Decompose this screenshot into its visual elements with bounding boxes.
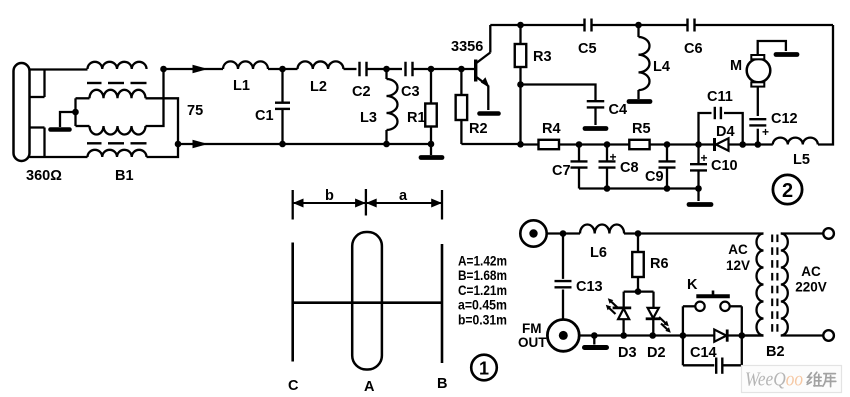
svg-text:R2: R2 [469, 121, 488, 137]
wire w2 right to bottom node [146, 98, 179, 144]
ground (L4) [629, 99, 650, 104]
wire secondary bottom terminal [781, 334, 824, 336]
node B1 center tap [72, 109, 79, 116]
label R2 [469, 121, 488, 137]
svg-text:C6: C6 [684, 41, 703, 57]
wire R4 to R5 [559, 143, 629, 145]
svg-text:C4: C4 [609, 102, 628, 118]
label C14 [690, 345, 717, 361]
dimension line a/b [293, 189, 442, 220]
wire L3 to C3 [387, 68, 403, 70]
label 3356 [451, 39, 483, 55]
capacitor C9 [659, 145, 676, 189]
svg-text:C13: C13 [576, 279, 603, 295]
label R4 [542, 121, 561, 137]
svg-text:R5: R5 [632, 121, 651, 137]
resistor R1 [425, 69, 437, 144]
svg-text:D4: D4 [716, 124, 735, 140]
inductor L5 [773, 138, 818, 145]
label R6 [650, 256, 669, 272]
wire K box bottom edge [683, 364, 742, 366]
capacitor C6 [688, 19, 695, 32]
label FM OUT [518, 321, 547, 350]
label D2 [647, 345, 666, 361]
svg-text:OUT: OUT [518, 335, 547, 350]
svg-text:B: B [437, 376, 447, 392]
watermark WeeQoo [742, 366, 842, 393]
node C8 bottom [604, 185, 611, 192]
svg-text:L3: L3 [360, 110, 377, 126]
svg-text:FM: FM [522, 321, 542, 336]
node D4 cathode-side [739, 141, 746, 148]
connector FM OUT [547, 320, 579, 352]
inductor L3 [387, 69, 398, 144]
B1 left vertical wire [74, 98, 76, 126]
svg-text:L2: L2 [310, 79, 327, 95]
node L4 top [635, 22, 642, 29]
B1 core dashes top [87, 82, 147, 84]
label C3 [401, 84, 420, 100]
ground (B1 center tap) [51, 127, 70, 132]
terminal AC bottom [823, 330, 834, 341]
capacitor C14 [716, 358, 722, 374]
terminal AC top [823, 228, 834, 239]
label D3 [618, 345, 637, 361]
wire R1 to ground [430, 144, 432, 155]
label 75 [187, 103, 203, 119]
wire w4 right to bottom node [147, 144, 179, 157]
svg-text:1: 1 [479, 359, 489, 379]
label B2 [766, 344, 785, 360]
svg-text:B1: B1 [115, 168, 134, 184]
label R1 [407, 110, 426, 126]
capacitor C4 [587, 101, 605, 125]
svg-text:220V: 220V [795, 280, 827, 295]
wire C2 to L3 node [367, 68, 387, 70]
svg-text:B2: B2 [766, 344, 785, 360]
capacitor C3 [406, 62, 413, 77]
label B1 [115, 168, 134, 184]
resistor R3 [515, 25, 527, 144]
label C12 [771, 111, 798, 127]
transformer B2 primary [742, 234, 764, 336]
ground (motor) [776, 52, 797, 57]
balun B1 winding 4 (bottom) [88, 150, 147, 157]
wire L1 to C1 node [268, 68, 298, 70]
capacitor C8 electrolytic [599, 145, 617, 189]
node C9 bottom [664, 185, 671, 192]
node L3 top [383, 66, 390, 73]
circle label 1 [471, 355, 497, 381]
capacitor C10 electrolytic [690, 145, 708, 202]
label L4 [653, 59, 670, 75]
resistor R6 [632, 234, 644, 292]
B1 core dashes bottom [87, 142, 147, 144]
wire R3 to C4 [521, 85, 596, 101]
boom line [293, 301, 442, 304]
svg-text:C7: C7 [552, 163, 571, 179]
svg-text:L4: L4 [653, 59, 670, 75]
svg-text:A: A [364, 379, 375, 395]
wire sub-bottom rail [579, 187, 699, 189]
label L5 [793, 152, 810, 168]
wire top output [164, 68, 224, 70]
label R3 [533, 49, 552, 65]
wire K box left edge [682, 306, 684, 365]
LED D2 [646, 308, 671, 336]
antenna folded dipole 360 ohm [14, 63, 88, 161]
label L2 [310, 79, 327, 95]
capacitor C2 [360, 62, 367, 77]
svg-text:C=1.21m: C=1.21m [458, 282, 507, 298]
svg-text:C3: C3 [401, 84, 420, 100]
wire top rail right corner [818, 25, 833, 145]
svg-text:R1: R1 [407, 110, 426, 126]
diode D5 (series) [714, 330, 727, 342]
label M [730, 58, 742, 74]
svg-text:+: + [762, 125, 769, 139]
inductor L4 [639, 25, 650, 99]
resistor R4 [539, 140, 560, 149]
svg-text:75: 75 [187, 103, 203, 119]
wire LED top bar [624, 292, 654, 309]
label L6 [590, 245, 607, 261]
ground (C4) [585, 126, 606, 131]
node K box right [739, 332, 746, 339]
label A [364, 379, 375, 395]
wire w3 right to top node [146, 69, 164, 126]
label a (dimension) [399, 188, 408, 204]
wire R5 to D4 [650, 143, 715, 145]
capacitor C7 [571, 145, 588, 189]
node C10 bottom [695, 185, 702, 192]
ground (C10) [689, 202, 711, 207]
node C7 top [576, 141, 583, 148]
label AC 220V [795, 264, 827, 295]
node R3 top [517, 22, 524, 29]
svg-text:+: + [701, 151, 708, 165]
label C7 [552, 163, 571, 179]
label L3 [360, 110, 377, 126]
svg-text:a: a [399, 188, 408, 204]
arrow top output [193, 65, 209, 73]
antenna element B (director) [441, 244, 444, 363]
wire FM OUT to rail [579, 334, 763, 336]
capacitor C12 electrolytic [749, 87, 769, 145]
node B1 bottom output [175, 141, 182, 148]
balun B1 winding 1 (top) [88, 62, 147, 69]
svg-text:R4: R4 [542, 121, 561, 137]
node K box left [680, 332, 687, 339]
inductor L1 [223, 61, 268, 69]
wire to ground stub [593, 336, 595, 345]
svg-text:L1: L1 [233, 78, 250, 94]
svg-text:C12: C12 [771, 111, 798, 127]
wire L2 to C2 [344, 68, 357, 70]
node LED top [635, 288, 642, 295]
svg-text:A=1.42m: A=1.42m [458, 253, 507, 269]
label K [687, 277, 698, 293]
node B1 top output [160, 66, 167, 73]
switch K [683, 291, 742, 311]
resistor R2 [456, 69, 468, 144]
label C4 [609, 102, 628, 118]
label B [437, 376, 447, 392]
svg-text:12V: 12V [726, 258, 750, 273]
node C9 top [664, 141, 671, 148]
label L1 [233, 78, 250, 94]
svg-text:b=0.31m: b=0.31m [458, 311, 507, 327]
capacitor C1 [275, 69, 290, 144]
ground (FM OUT rail) [585, 345, 607, 350]
wire to transistor base [431, 68, 474, 70]
svg-text:AC: AC [728, 242, 748, 257]
label C2 [352, 84, 371, 100]
node L3 bottom [383, 141, 390, 148]
dimension text block [458, 253, 507, 328]
capacitor C5 [585, 19, 592, 32]
node R2 top [458, 66, 465, 73]
ground (R1) [421, 155, 442, 160]
inductor L2 [298, 61, 344, 69]
wire C11 right [724, 113, 743, 145]
svg-text:3356: 3356 [451, 39, 483, 55]
node mid rail R3 [517, 141, 524, 148]
label C11 [707, 89, 733, 105]
label C8 [620, 160, 639, 176]
svg-text:b: b [325, 188, 334, 204]
svg-text:+: + [610, 150, 617, 164]
wire motor to ground [758, 41, 786, 55]
wire top rail [490, 24, 833, 26]
antenna element C (reflector) [291, 243, 294, 362]
node C10 top [695, 141, 702, 148]
balun B1 winding 2 [76, 90, 146, 99]
wire center tap to ground [60, 112, 76, 127]
wire D4 to L5 [729, 143, 773, 145]
wire C11 left [699, 113, 712, 145]
resistor R5 [629, 140, 649, 149]
label b (dimension) [325, 188, 334, 204]
node C12 bottom [755, 141, 762, 148]
svg-text:C1: C1 [255, 108, 274, 124]
transformer B2 core [772, 235, 777, 332]
svg-text:C: C [288, 378, 299, 394]
node ground junction [591, 332, 598, 339]
node R3 bottom junction [517, 81, 524, 88]
wire bottom rail [178, 143, 431, 145]
label C1 [255, 108, 274, 124]
svg-text:C9: C9 [645, 169, 664, 185]
svg-text:C2: C2 [352, 84, 371, 100]
svg-text:L5: L5 [793, 152, 810, 168]
label 360ohm [26, 168, 62, 184]
svg-text:WeeQoo: WeeQoo [745, 369, 803, 391]
svg-text:C8: C8 [620, 160, 639, 176]
label C10 [711, 158, 738, 174]
label AC 12V [726, 242, 750, 273]
svg-text:C5: C5 [578, 41, 597, 57]
ground (emitter) [480, 111, 499, 116]
svg-text:K: K [687, 277, 698, 293]
circle label 2 [773, 175, 802, 204]
wire mid rail [461, 143, 538, 146]
label C5 [578, 41, 597, 57]
motor M [747, 55, 771, 87]
balun B1 winding 3 [76, 126, 146, 135]
node C8 top [604, 141, 611, 148]
capacitor C13 [555, 234, 572, 320]
node R6 top [635, 230, 642, 237]
diode D4 [715, 138, 729, 151]
svg-text:C10: C10 [711, 158, 738, 174]
wire L6 to transformer [624, 232, 764, 234]
svg-text:C11: C11 [707, 89, 733, 105]
node R1 bottom [428, 141, 435, 148]
svg-text:R6: R6 [650, 256, 669, 272]
capacitor C11 [715, 107, 721, 119]
label R5 [632, 121, 651, 137]
LED D3 [606, 298, 631, 335]
svg-text:D2: D2 [647, 345, 666, 361]
label D4 [716, 124, 735, 140]
transformer B2 secondary [781, 234, 788, 336]
label C13 [576, 279, 603, 295]
label C6 [684, 41, 703, 57]
node C13 top [560, 230, 567, 237]
svg-text:M: M [730, 58, 742, 74]
wire J1 node to L6 [563, 232, 580, 234]
svg-text:B=1.68m: B=1.68m [458, 267, 507, 283]
wire secondary top terminal [781, 232, 824, 234]
svg-text:L6: L6 [590, 245, 607, 261]
svg-text:AC: AC [801, 264, 821, 279]
wire K box right edge [741, 306, 743, 365]
node D2 bottom [649, 332, 656, 339]
label C [288, 378, 299, 394]
node C1 top [279, 66, 286, 73]
node C1 bottom [279, 141, 286, 148]
antenna element A folded dipole [352, 232, 382, 370]
svg-text:2: 2 [782, 180, 793, 202]
transistor Q1 3356 [476, 25, 491, 110]
wire C3 to R1 node [413, 68, 432, 70]
arrow bottom output [193, 140, 209, 148]
node R1 top [428, 66, 435, 73]
svg-text:R3: R3 [533, 49, 552, 65]
node D3 bottom [620, 332, 627, 339]
svg-text:360Ω: 360Ω [26, 168, 62, 184]
inductor L6 [580, 224, 624, 233]
svg-text:C14: C14 [690, 345, 717, 361]
label C9 [645, 169, 664, 185]
connector J1 (input) [520, 220, 563, 246]
svg-text:D3: D3 [618, 345, 637, 361]
svg-text:a=0.45m: a=0.45m [458, 297, 507, 313]
